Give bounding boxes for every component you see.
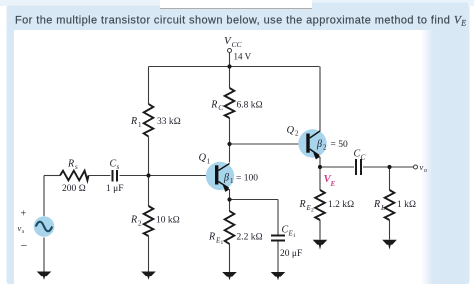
svg-text:= 100: = 100	[236, 174, 258, 184]
svg-text:v: v	[420, 162, 424, 172]
svg-text:2.2 kΩ: 2.2 kΩ	[237, 233, 263, 243]
svg-text:Q: Q	[199, 153, 207, 164]
svg-text:For the multiple transistor ci: For the multiple transistor circuit show…	[15, 15, 467, 28]
svg-text:CC: CC	[232, 40, 243, 49]
svg-text:o: o	[424, 168, 427, 174]
svg-text:20 μF: 20 μF	[280, 249, 302, 259]
svg-text:2: 2	[295, 130, 299, 138]
svg-text:R: R	[130, 116, 137, 127]
svg-text:β: β	[223, 173, 229, 184]
svg-text:6.8 kΩ: 6.8 kΩ	[237, 100, 263, 110]
svg-text:1: 1	[207, 158, 211, 166]
svg-text:1: 1	[293, 233, 296, 239]
svg-text:R: R	[210, 99, 217, 110]
svg-text:R: R	[299, 199, 306, 210]
svg-text:C: C	[282, 225, 289, 236]
svg-text:33 kΩ: 33 kΩ	[157, 117, 181, 127]
svg-text:v: v	[18, 223, 22, 233]
svg-text:1.2 kΩ: 1.2 kΩ	[328, 200, 354, 210]
svg-text:R: R	[67, 159, 74, 170]
svg-text:R: R	[373, 199, 380, 210]
svg-text:s: s	[117, 163, 120, 171]
svg-text:s: s	[75, 163, 78, 171]
svg-text:2: 2	[323, 144, 327, 152]
svg-text:E: E	[330, 180, 336, 188]
svg-text:R: R	[130, 215, 137, 226]
svg-text:1: 1	[230, 177, 234, 185]
svg-text:1 μF: 1 μF	[106, 184, 124, 194]
svg-text:1 kΩ: 1 kΩ	[397, 200, 416, 210]
svg-text:14 V: 14 V	[234, 52, 252, 62]
svg-text:200 Ω: 200 Ω	[62, 184, 86, 194]
svg-text:= 50: = 50	[331, 140, 348, 150]
svg-text:+: +	[21, 209, 27, 220]
svg-text:R: R	[208, 232, 215, 243]
svg-text:2: 2	[311, 208, 314, 214]
svg-text:C: C	[110, 159, 117, 170]
svg-text:2: 2	[138, 220, 142, 228]
svg-text:β: β	[316, 139, 322, 150]
svg-text:10 kΩ: 10 kΩ	[156, 216, 180, 226]
svg-text:C: C	[354, 149, 361, 160]
svg-text:−: −	[21, 239, 28, 253]
svg-text:1: 1	[221, 240, 224, 246]
svg-text:Q: Q	[287, 125, 295, 136]
svg-text:1: 1	[138, 121, 142, 129]
svg-text:L: L	[380, 203, 385, 212]
